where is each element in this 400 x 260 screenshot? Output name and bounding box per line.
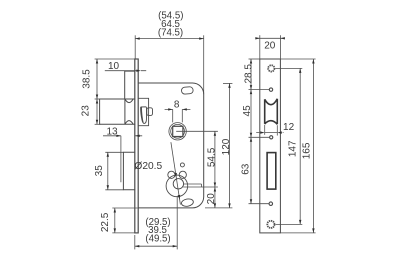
ext block top (105, 151, 123, 153)
faceplate edge view (left view) (135, 59, 138, 233)
deadbolt cutout (267, 153, 276, 190)
arrows chain 63 (250, 137, 252, 142)
screw bottom centerline (276, 223, 303, 225)
small circle right (179, 171, 186, 178)
ext plate top toward chain (249, 58, 260, 60)
ext block bottom (105, 189, 123, 191)
deadbolt block (123, 152, 135, 190)
svg-text:Ø20.5: Ø20.5 (134, 161, 162, 172)
small hole 2 (270, 136, 273, 139)
right view dim 20 line (257, 37, 283, 39)
dim 12 line (256, 132, 283, 134)
latch tail tab (147, 108, 153, 116)
top dim extension left (134, 35, 136, 59)
arrows dim 120 (228, 83, 230, 88)
arrows dim 23 (96, 99, 98, 104)
dim 23 line (96, 99, 98, 124)
cylinder cam top line (183, 183, 201, 185)
lock case outline (138, 83, 204, 208)
svg-text:35: 35 (94, 165, 105, 177)
bottom ext right / cylinder centerline down (176, 196, 178, 249)
svg-text:(49.5): (49.5) (145, 233, 170, 244)
dim 22.5 line (114, 208, 116, 233)
arrows leader dia20.5 (174, 173, 177, 178)
arrows dim 165 (312, 59, 314, 64)
dim 13 extension (120, 136, 122, 183)
svg-text:120: 120 (221, 138, 232, 155)
screw hole top (268, 65, 274, 71)
cylinder cam right edge (201, 184, 203, 187)
arrows dim 8 (168, 108, 173, 110)
cylinder hole inner (173, 179, 183, 189)
screw hole bottom (267, 221, 274, 228)
ext plate bottom left (112, 232, 138, 234)
svg-text:165: 165 (301, 142, 312, 159)
ext hole1 (249, 89, 270, 91)
ext latch bottom (95, 123, 101, 125)
small hole 1 (269, 88, 272, 91)
svg-text:20: 20 (206, 193, 217, 205)
svg-text:45: 45 (242, 105, 253, 117)
ext plate bottom right (280, 232, 315, 234)
arrows dim 12 (260, 131, 265, 133)
ext plate top left (95, 58, 136, 60)
dim 10 line (105, 70, 146, 72)
ext plate top right (280, 58, 315, 60)
arrows dim 20 left-view (214, 187, 216, 192)
latch cam piece (141, 107, 147, 124)
dim 13 line (103, 135, 142, 137)
arrows dim 35 (107, 152, 109, 157)
arrow dim 10 (136, 70, 141, 72)
right view: faceplate front (260, 59, 281, 233)
arrows chain 28.5 (250, 59, 252, 64)
follower outer circle (169, 123, 186, 140)
bottom ext left (134, 235, 136, 249)
svg-text:38.5: 38.5 (82, 69, 93, 89)
latch tail box (138, 98, 148, 125)
arrows right view dim 20 (255, 37, 259, 39)
dim 147 line (299, 68, 301, 224)
dim 12 ext left (264, 125, 266, 135)
arrows dim 147 (299, 68, 301, 73)
follower square hole (173, 126, 183, 136)
oval slot top (181, 87, 193, 95)
svg-text:54.5: 54.5 (207, 147, 218, 167)
small hole 3 (269, 202, 273, 206)
right view top ext left (259, 35, 261, 58)
dim 8 line (165, 108, 191, 110)
arrows top dim (135, 37, 140, 39)
svg-text:28.5: 28.5 (243, 64, 254, 84)
dim 35 line (107, 152, 109, 190)
svg-text:8: 8 (174, 100, 180, 111)
small circle left (168, 171, 175, 178)
svg-text:63: 63 (241, 163, 252, 175)
dim 165 line (312, 59, 314, 233)
dim 8 extensions (173, 109, 183, 122)
svg-text:22.5: 22.5 (100, 212, 111, 232)
ext case bottom right (205, 207, 232, 209)
cylinder centerline (183, 186, 218, 188)
follower inner circle (171, 124, 185, 138)
latch cutout (265, 99, 278, 125)
ext hole3 (249, 203, 270, 205)
bottom dim line (135, 245, 177, 247)
right view top ext right (279, 35, 281, 58)
ext hole2 (249, 136, 270, 138)
svg-text:23: 23 (80, 105, 91, 117)
latch housing step rect (125, 71, 136, 99)
right chain dim line (250, 59, 252, 204)
ext case top tick (223, 82, 232, 84)
top dim line (135, 38, 204, 40)
svg-text:10: 10 (108, 61, 120, 72)
svg-text:20: 20 (264, 41, 276, 52)
arrows dim 22.5 (114, 208, 116, 213)
dim 120 line (229, 83, 231, 207)
dim 38.5 line (96, 59, 98, 99)
svg-text:13: 13 (106, 126, 118, 137)
arrows dim 13 (116, 135, 121, 137)
tiny circle (180, 163, 184, 167)
leader line dia20.5 (171, 142, 181, 204)
arrows chain 45 (250, 90, 252, 95)
dim 54.5 line (214, 131, 216, 187)
follower centerline (176, 130, 218, 132)
dim 12 ext right (276, 125, 278, 135)
arrows bottom dim (135, 245, 140, 247)
cylinder hole outer (166, 175, 188, 197)
svg-text:(74.5): (74.5) (158, 27, 183, 38)
ext case bottom left (112, 207, 137, 209)
svg-text:12: 12 (283, 122, 295, 133)
screw top centerline (275, 67, 302, 69)
ext latch top (95, 98, 101, 100)
arrows dim 54.5 (214, 131, 216, 136)
svg-text:147: 147 (288, 140, 299, 157)
oval slot bottom (181, 198, 194, 207)
dim 20 left-view line (214, 187, 216, 208)
arrows dim 38.5 (96, 59, 98, 64)
top dim extension right (203, 35, 205, 94)
latch bolt (100, 99, 136, 124)
